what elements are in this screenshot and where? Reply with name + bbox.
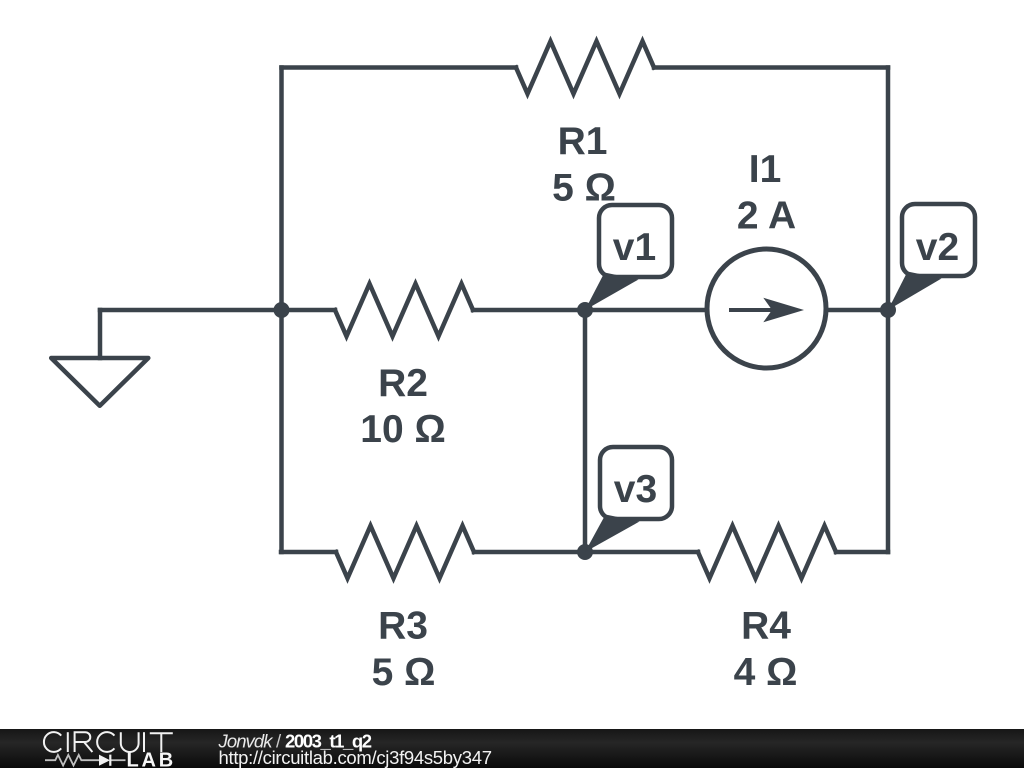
wire: right rail vertical xyxy=(886,68,891,553)
svg-text:v1: v1 xyxy=(613,226,656,269)
node label v1 callout xyxy=(585,205,672,310)
svg-text:v3: v3 xyxy=(614,468,657,511)
svg-text:R1: R1 xyxy=(558,120,608,163)
node v3 junction dot xyxy=(577,544,593,560)
svg-text:LAB: LAB xyxy=(127,750,177,768)
footer bar xyxy=(0,729,1024,768)
CircuitLab logo: resistor-diode glyph xyxy=(45,755,126,766)
resistor R4 xyxy=(698,526,836,579)
svg-text:5 Ω: 5 Ω xyxy=(552,167,616,210)
CircuitLab logo: CIRCUIT wordmark xyxy=(44,732,173,752)
wire: top right segment xyxy=(654,65,888,70)
wire: R2 to node v1 xyxy=(473,308,585,313)
svg-text:R4: R4 xyxy=(741,605,791,648)
svg-text:4 Ω: 4 Ω xyxy=(734,651,798,694)
wire: ground lead xyxy=(100,308,282,313)
svg-text:5 Ω: 5 Ω xyxy=(372,651,436,694)
ground symbol xyxy=(98,310,103,358)
svg-text:10 Ω: 10 Ω xyxy=(360,408,445,451)
wire: node v3 to R4 xyxy=(586,550,698,555)
svg-text:http://circuitlab.com/cj3f94s5: http://circuitlab.com/cj3f94s5by347 xyxy=(219,747,493,768)
svg-text:v2: v2 xyxy=(916,226,959,269)
svg-text:2 A: 2 A xyxy=(737,195,796,238)
wire: top left segment xyxy=(282,65,517,70)
node label v2 callout xyxy=(888,204,975,310)
svg-text:I1: I1 xyxy=(749,148,782,191)
wire: R4 to right rail xyxy=(836,550,888,555)
current source I1 circle xyxy=(707,249,826,368)
node label v3 callout xyxy=(585,447,672,552)
svg-text:R2: R2 xyxy=(378,362,428,405)
wire: node v1 down to node v3 xyxy=(583,310,588,552)
node A junction dot xyxy=(274,302,290,318)
resistor R3 xyxy=(336,526,474,579)
node v1 junction dot xyxy=(577,302,593,318)
current source I1 arrow xyxy=(729,308,785,312)
resistor R1 xyxy=(516,41,654,94)
wire: left rail vertical xyxy=(279,68,284,553)
wire: node A to R2 xyxy=(281,308,335,313)
resistor R2 xyxy=(335,284,473,337)
wire: node v1 to current source xyxy=(585,308,706,313)
node v2 junction dot xyxy=(880,302,896,318)
wire: R3 to node v3 xyxy=(474,550,586,555)
wire: current source to node v2 xyxy=(828,308,888,313)
svg-text:R3: R3 xyxy=(378,605,428,648)
wire: bottom left segment xyxy=(281,550,336,555)
